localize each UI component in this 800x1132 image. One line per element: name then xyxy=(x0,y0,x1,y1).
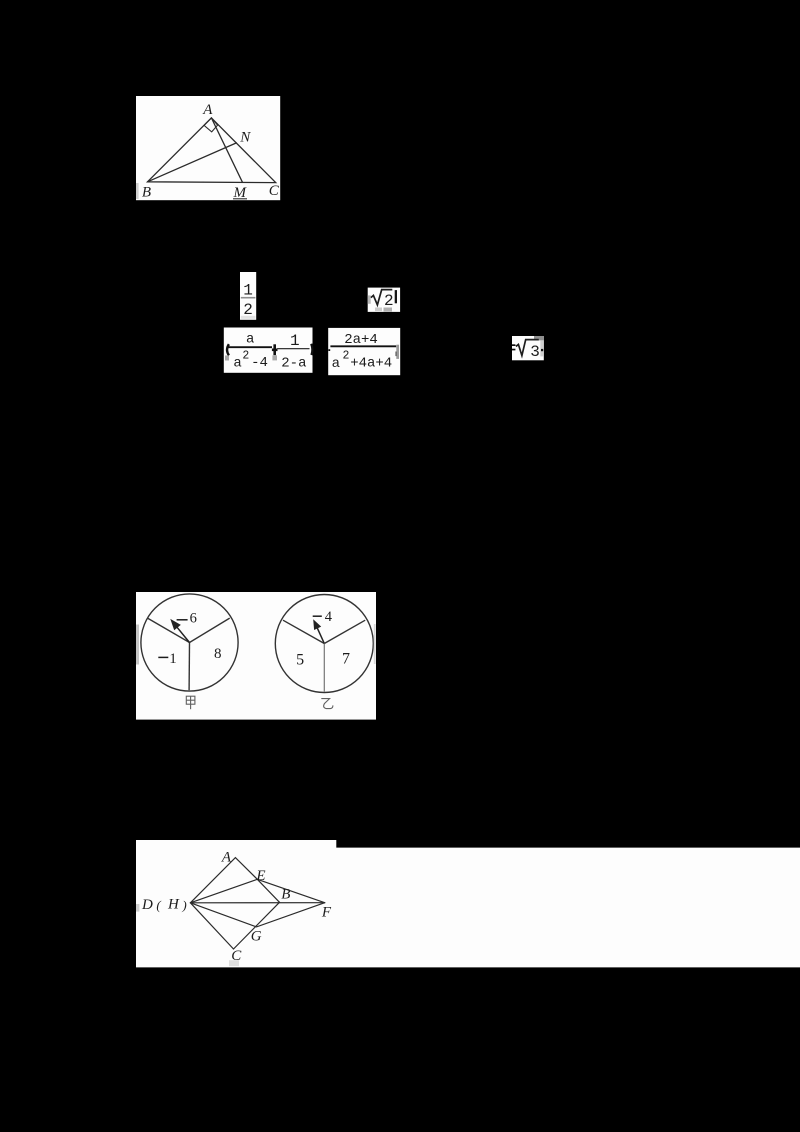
svg-text:1: 1 xyxy=(169,651,177,667)
svg-text:F: F xyxy=(321,904,332,920)
svg-text:A: A xyxy=(221,849,232,865)
svg-text:+4a+4: +4a+4 xyxy=(350,356,392,372)
svg-text:5: 5 xyxy=(296,652,304,669)
svg-text:D: D xyxy=(141,897,153,913)
svg-text:H: H xyxy=(167,896,180,912)
svg-text:2: 2 xyxy=(384,292,394,310)
svg-text:7: 7 xyxy=(342,651,350,668)
svg-text:B: B xyxy=(142,185,151,201)
svg-text:6: 6 xyxy=(190,611,197,627)
svg-text:B: B xyxy=(281,886,290,902)
svg-text:8: 8 xyxy=(214,646,222,662)
svg-text:N: N xyxy=(239,130,251,146)
svg-text:1: 1 xyxy=(243,281,253,299)
svg-text:C: C xyxy=(269,183,280,199)
svg-text:-4: -4 xyxy=(251,355,268,371)
svg-text:a: a xyxy=(246,332,254,348)
svg-text:E: E xyxy=(255,868,265,884)
svg-text:): ) xyxy=(181,897,186,912)
svg-text:G: G xyxy=(251,929,262,945)
svg-text:4: 4 xyxy=(325,609,333,625)
svg-text:(: ( xyxy=(156,897,161,912)
svg-text:1: 1 xyxy=(290,332,300,350)
svg-text:2-a: 2-a xyxy=(281,356,306,372)
svg-text:a: a xyxy=(233,356,241,372)
svg-text:2: 2 xyxy=(342,350,349,363)
svg-text:3: 3 xyxy=(530,343,540,361)
svg-text:a: a xyxy=(332,356,340,372)
svg-text:2: 2 xyxy=(242,350,249,363)
svg-text:A: A xyxy=(202,102,213,118)
